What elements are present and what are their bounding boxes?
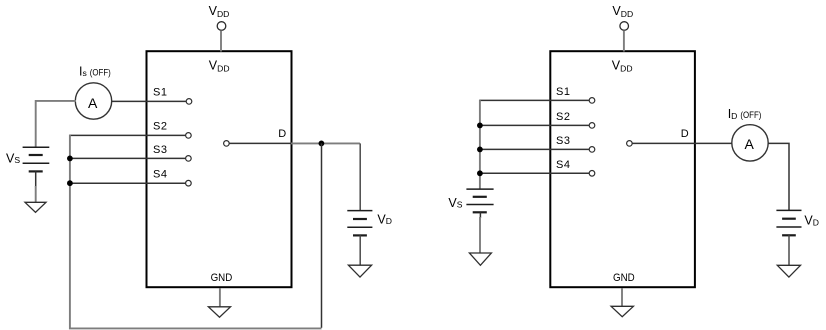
wire S3 (left) (69, 157, 185, 159)
label VDD above terminal (left) (209, 4, 230, 19)
wire VDD terminal to box top (left) (220, 30, 222, 51)
wire S3 (right) (479, 148, 589, 150)
wire S1 (right) (479, 99, 589, 101)
battery VS (right) (466, 189, 493, 212)
label pin S3 (left) (153, 144, 167, 156)
wire ammeter left to VS top (left) (36, 101, 76, 147)
ground below VD (right) (777, 265, 800, 277)
wire S4 (left) (69, 182, 185, 184)
svg-text:A: A (88, 95, 98, 111)
ground below box (left) (208, 307, 230, 317)
svg-text:GND: GND (211, 272, 233, 284)
wire D to ammeter (right) (632, 142, 731, 144)
label pin S1 (left) (153, 87, 167, 99)
label pin S4 (left) (153, 169, 167, 181)
wire loop S2/S3/S4 to D node (left) (70, 135, 322, 329)
node VDD terminal (right) (620, 22, 629, 31)
wire S4 (right) (479, 172, 589, 174)
wire D node to VD corner (left, gray connector) (291, 142, 360, 144)
pin S3 circle (right) (589, 147, 595, 153)
label pin D (left) (278, 128, 286, 140)
wire ammeter to pin S1 (left) (112, 100, 187, 102)
label VS (right) (448, 196, 462, 210)
wire VD bottom to ground (right) (788, 235, 790, 265)
label VDD above terminal (right) (612, 4, 633, 19)
label pin S2 (right) (556, 111, 570, 123)
label VDD inside box (left) (209, 59, 230, 74)
IC box U1 (left multiplexer) (147, 51, 292, 287)
pin S1 circle (left) (186, 99, 192, 105)
node VDD terminal (left) (217, 22, 226, 31)
label pin S3 (right) (556, 135, 570, 147)
pin S4 circle (left) (186, 180, 192, 186)
label VD (right) (804, 214, 819, 228)
wire VS bottom to ground (right) (479, 212, 481, 252)
wire GND pin to ground (right) (621, 288, 623, 306)
svg-text:S4: S4 (153, 169, 167, 181)
label pin S2 (left) (153, 121, 167, 133)
label pin GND (left) (211, 272, 233, 284)
wire D node down to loop (left) (321, 143, 323, 327)
label ID (OFF) (728, 107, 762, 121)
svg-text:S1: S1 (556, 86, 570, 98)
svg-text:S3: S3 (153, 144, 167, 156)
label pin S1 (right) (556, 86, 570, 98)
pin S2 circle (left) (186, 133, 192, 139)
battery VD (left) (347, 143, 372, 235)
wire VD bottom to ground (left) (359, 235, 361, 265)
ammeter A1 Is(OFF) (75, 83, 111, 119)
junction S2 on bus (right) (477, 123, 483, 129)
ground below VS (left) (25, 202, 46, 212)
wire VS bottom to ground (left) (35, 171, 37, 202)
IC box U2 (right multiplexer) (550, 51, 695, 287)
pin S3 circle (left) (186, 156, 192, 162)
label pin S4 (right) (556, 159, 570, 171)
wire D to VD branch (left) (229, 142, 292, 144)
label VDD inside box (right) (612, 59, 633, 74)
wire ammeter to VD top (right) (768, 143, 789, 210)
battery VS (left) (23, 147, 50, 171)
pin S1 circle (right) (589, 98, 595, 104)
ground below VD (left) (348, 265, 371, 277)
junction S3 on bus (right) (477, 147, 483, 153)
wire bus S1-S4 down to VS (right) (479, 100, 481, 189)
svg-text:S4: S4 (556, 159, 570, 171)
wire GND pin to ground (left) (219, 288, 221, 307)
label Is (OFF) (79, 64, 111, 78)
wire S2 (right) (479, 124, 589, 126)
label pin GND (right) (613, 272, 635, 284)
junction S4 on loop (left) (67, 180, 73, 186)
label pin D (right) (681, 128, 689, 140)
svg-text:S2: S2 (153, 121, 167, 133)
pin S4 circle (right) (589, 171, 595, 177)
ammeter A2 ID(OFF) (732, 125, 768, 161)
label VD (left) (377, 212, 392, 226)
svg-text:A: A (745, 136, 755, 152)
ground below box (right) (611, 306, 633, 316)
svg-text:S3: S3 (556, 135, 570, 147)
svg-text:D: D (681, 128, 689, 140)
junction node D (left) (319, 141, 325, 147)
wire S2 (left) (69, 134, 185, 136)
wire VDD terminal to box top (right) (623, 30, 625, 51)
svg-text:D: D (278, 128, 286, 140)
pin S2 circle (right) (589, 123, 595, 129)
svg-text:GND: GND (613, 272, 635, 284)
svg-text:S1: S1 (153, 87, 167, 99)
pin D circle (right) (627, 141, 633, 147)
pin D circle (left) (224, 141, 230, 147)
junction S4 on bus (right) (477, 170, 483, 176)
junction S3 on loop (left) (67, 156, 73, 162)
label VS (left) (6, 151, 20, 165)
ground below VS (right) (469, 253, 491, 265)
svg-text:S2: S2 (556, 111, 570, 123)
battery VD (right) (776, 210, 801, 235)
